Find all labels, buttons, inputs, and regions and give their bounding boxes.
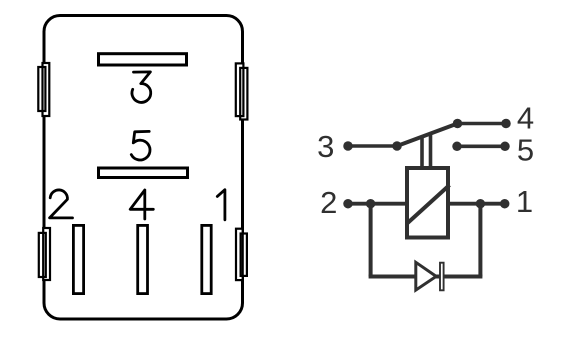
- svg-text:3: 3: [317, 129, 334, 164]
- pin 1 blade slot: [202, 225, 211, 293]
- wire drop right to diode loop: [478, 204, 482, 277]
- svg-text:1: 1: [516, 184, 533, 219]
- relay coil diagonal: [407, 185, 450, 224]
- node terminal 5: [500, 142, 510, 152]
- pin 2 label: [50, 190, 73, 218]
- wire diode loop bottom: [369, 275, 483, 279]
- node contact 4: [453, 119, 463, 129]
- pin 2 blade slot: [73, 225, 83, 293]
- node terminal 2: [343, 199, 353, 209]
- wire contact 4 to terminal 4: [458, 122, 507, 126]
- node switch pivot: [392, 141, 402, 151]
- wire junction right to terminal 1: [480, 202, 504, 206]
- mounting tab top-left: [38, 63, 49, 116]
- junction node right: [476, 199, 486, 209]
- pin 1 label: [217, 190, 225, 220]
- actuator link left line: [420, 137, 424, 168]
- diode D1 cathode bar: [440, 263, 444, 291]
- pin 3 label: [132, 72, 151, 102]
- svg-text:4: 4: [517, 101, 534, 136]
- mounting tab bottom-left: [39, 228, 50, 280]
- node terminal 4: [501, 119, 511, 129]
- pin 3 blade slot: [99, 54, 187, 65]
- pin 4 label: [130, 190, 153, 219]
- pin 5 label: [131, 131, 150, 160]
- diode D1 anode triangle: [416, 262, 436, 290]
- svg-text:2: 2: [320, 185, 337, 220]
- node terminal 3: [343, 141, 353, 151]
- relay connector body outline: [44, 16, 243, 320]
- wire coil to junction right: [448, 202, 480, 206]
- switch arm (common 3 to contact 4): [397, 124, 458, 147]
- svg-text:5: 5: [517, 133, 534, 168]
- wire drop left to diode loop: [369, 204, 373, 277]
- mounting tab bottom-right: [236, 229, 247, 280]
- pin 5 blade slot: [99, 168, 188, 178]
- wire terminal 3 to switch pivot: [348, 144, 397, 148]
- node contact 5: [452, 142, 462, 152]
- wire contact 5 to terminal 5: [457, 145, 505, 149]
- node terminal 1: [500, 199, 510, 209]
- pin 4 blade slot: [138, 225, 148, 293]
- actuator link right line: [429, 134, 433, 169]
- wire terminal 2 to coil: [348, 202, 407, 206]
- junction node left: [366, 199, 376, 209]
- relay coil K1 box: [407, 168, 448, 238]
- mounting tab top-right: [236, 63, 248, 119]
